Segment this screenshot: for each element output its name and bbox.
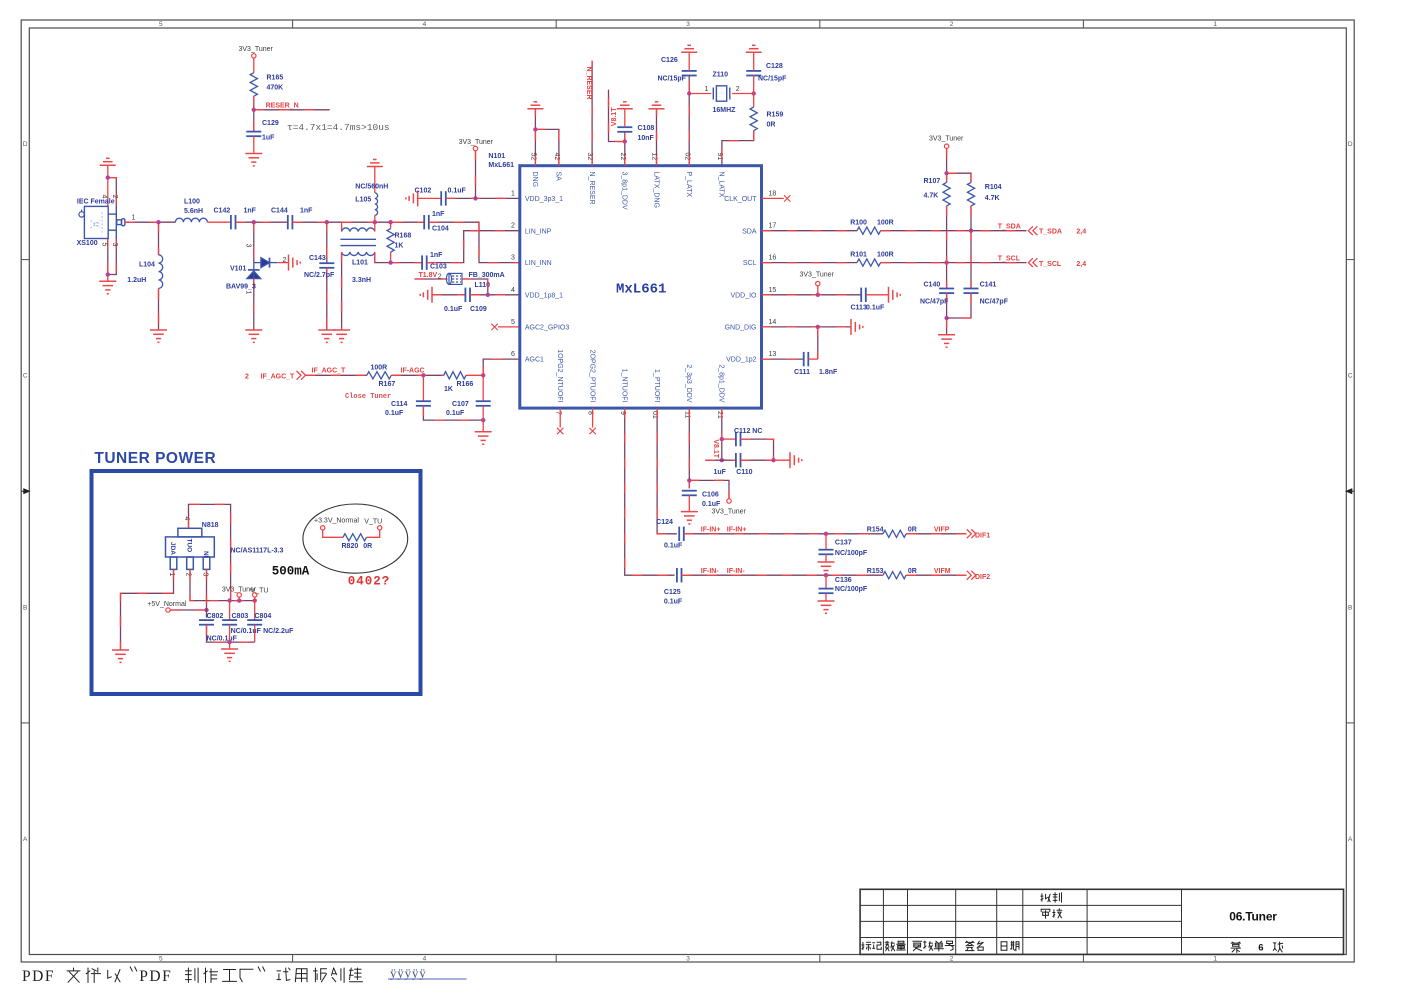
svg-text:3V3_Tuner: 3V3_Tuner bbox=[239, 46, 274, 53]
svg-text:3: 3 bbox=[245, 244, 252, 248]
wire bbox=[946, 293, 948, 335]
svg-text:1K: 1K bbox=[395, 243, 404, 250]
junction bbox=[687, 91, 691, 95]
IC U/N101 MxL661 bbox=[520, 166, 762, 408]
junction bbox=[204, 608, 208, 612]
connector XS100 IEC Female bbox=[79, 206, 125, 238]
svg-text:15: 15 bbox=[769, 287, 777, 294]
inductor L101 bottom bbox=[342, 252, 375, 256]
svg-text:T_SDA: T_SDA bbox=[1039, 229, 1062, 236]
power 3V3_Tuner bbox=[321, 526, 325, 530]
wire bbox=[238, 597, 240, 600]
svg-text:IF-IN-: IF-IN- bbox=[727, 568, 746, 575]
svg-text:3: 3 bbox=[686, 21, 690, 28]
power 3V3_Tuner bbox=[944, 144, 948, 148]
wire bbox=[427, 231, 520, 263]
regulator N818 NC/AS1117L-3.3 bbox=[166, 528, 215, 569]
junction bbox=[533, 127, 537, 131]
ground bbox=[851, 319, 863, 335]
svg-text:NC/2.2uF: NC/2.2uF bbox=[263, 628, 294, 635]
wire bbox=[482, 406, 484, 420]
svg-text:MxL661: MxL661 bbox=[488, 162, 514, 169]
power 3V3_Tuner bbox=[816, 281, 820, 285]
svg-text:2OPG2_PTUOFI: 2OPG2_PTUOFI bbox=[588, 350, 595, 403]
svg-text:N101: N101 bbox=[488, 153, 505, 160]
svg-text:0R: 0R bbox=[908, 527, 917, 534]
wire bbox=[236, 221, 288, 223]
ground bbox=[681, 512, 698, 524]
wire bbox=[762, 197, 784, 199]
svg-text:5.6nH: 5.6nH bbox=[184, 208, 203, 215]
svg-text:PDF: PDF bbox=[139, 968, 172, 985]
wire bbox=[253, 136, 255, 153]
capacitor C106 bbox=[682, 491, 697, 496]
resistor R168 bbox=[387, 229, 394, 253]
wire bbox=[423, 406, 483, 420]
wire bbox=[253, 58, 255, 72]
svg-text:C129: C129 bbox=[262, 120, 279, 127]
wire bbox=[483, 359, 520, 375]
svg-text:N_RESER: N_RESER bbox=[585, 67, 592, 100]
svg-text:2: 2 bbox=[950, 956, 954, 963]
option ellipse bbox=[303, 504, 408, 573]
capacitor C136 bbox=[819, 589, 834, 594]
svg-text:0.1uF: 0.1uF bbox=[385, 410, 404, 417]
svg-text:C143: C143 bbox=[309, 255, 326, 262]
svg-text:ÿÿÿÿÿ: ÿÿÿÿÿ bbox=[390, 966, 427, 981]
svg-text:NC/560nH: NC/560nH bbox=[355, 184, 388, 191]
junction bbox=[720, 437, 724, 441]
svg-text:LIN_INN: LIN_INN bbox=[525, 260, 552, 267]
svg-text:3V3_Tuner: 3V3_Tuner bbox=[929, 136, 964, 143]
wire bbox=[292, 221, 424, 223]
capacitor C802 bbox=[199, 620, 214, 625]
wire bbox=[535, 129, 559, 165]
wire bbox=[107, 238, 109, 275]
svg-text:IEC Female: IEC Female bbox=[77, 198, 115, 205]
svg-text:C126: C126 bbox=[661, 57, 678, 64]
svg-text:R820: R820 bbox=[342, 543, 359, 550]
capacitor C109 bbox=[465, 288, 470, 302]
junction bbox=[106, 272, 110, 276]
wire bbox=[906, 533, 966, 535]
wire bbox=[253, 279, 255, 330]
svg-text:1: 1 bbox=[511, 190, 515, 197]
svg-text:GND_DIG: GND_DIG bbox=[725, 325, 757, 332]
capacitor C140 bbox=[939, 289, 954, 294]
svg-text:NC/47pF: NC/47pF bbox=[980, 299, 1009, 306]
svg-text:C106: C106 bbox=[702, 492, 719, 499]
wire bbox=[125, 221, 176, 223]
junction bbox=[481, 373, 485, 377]
wire bbox=[229, 642, 231, 649]
capacitor C141 bbox=[964, 289, 979, 294]
svg-text:NC/15pF: NC/15pF bbox=[658, 76, 687, 83]
svg-text:A: A bbox=[1348, 836, 1353, 843]
wire bbox=[881, 230, 1027, 232]
junction bbox=[253, 598, 257, 602]
ground bbox=[333, 330, 350, 342]
svg-text:4.7K: 4.7K bbox=[985, 195, 1000, 202]
wire bbox=[947, 293, 971, 318]
svg-text:B: B bbox=[23, 604, 27, 611]
svg-text:14: 14 bbox=[769, 319, 777, 326]
svg-text:C804: C804 bbox=[255, 613, 272, 620]
wire bbox=[592, 408, 594, 427]
ground bbox=[245, 154, 262, 166]
wire bbox=[229, 601, 231, 621]
junction bbox=[421, 373, 425, 377]
svg-text:1OPG2_NTUOFI: 1OPG2_NTUOFI bbox=[556, 349, 563, 402]
wire bbox=[306, 374, 367, 376]
wire bbox=[866, 294, 889, 296]
svg-text:V_TU: V_TU bbox=[364, 519, 382, 526]
wire bbox=[415, 278, 448, 280]
capacitor C124 bbox=[679, 527, 684, 541]
wire bbox=[741, 459, 774, 461]
svg-text:1nF: 1nF bbox=[430, 252, 443, 259]
capacitor C113 bbox=[861, 288, 866, 302]
svg-text:06.Tuner: 06.Tuner bbox=[1229, 910, 1277, 924]
svg-text:V101: V101 bbox=[230, 266, 246, 273]
svg-text:4: 4 bbox=[101, 195, 108, 199]
wire bbox=[825, 575, 827, 588]
svg-text:6: 6 bbox=[511, 351, 515, 358]
ground bbox=[889, 287, 901, 303]
svg-text:1nF: 1nF bbox=[300, 208, 313, 215]
svg-text:2: 2 bbox=[736, 86, 740, 93]
svg-text:C137: C137 bbox=[835, 539, 852, 546]
resistor R159 bbox=[750, 107, 757, 131]
wire bbox=[946, 149, 948, 183]
wire bbox=[374, 215, 376, 222]
capacitor C112 bbox=[736, 432, 741, 446]
svg-text:IF_AGC_T: IF_AGC_T bbox=[261, 373, 296, 380]
svg-text:16MHZ: 16MHZ bbox=[713, 107, 737, 114]
capacitor C144 bbox=[288, 215, 293, 229]
svg-text:0.1uF: 0.1uF bbox=[446, 410, 465, 417]
wire bbox=[390, 222, 392, 228]
wire bbox=[277, 262, 288, 264]
wire bbox=[206, 569, 208, 617]
wire bbox=[881, 262, 1027, 264]
svg-text:Z110: Z110 bbox=[713, 72, 729, 79]
svg-text:0402?: 0402? bbox=[348, 574, 391, 588]
svg-text:LIN_INP: LIN_INP bbox=[525, 228, 552, 235]
svg-text:R107: R107 bbox=[924, 178, 941, 185]
svg-text:PDF: PDF bbox=[22, 968, 55, 985]
svg-text:IF_AGC_T: IF_AGC_T bbox=[312, 367, 347, 374]
svg-text:100R: 100R bbox=[877, 252, 894, 259]
wire bbox=[170, 609, 206, 611]
capacitor C110 bbox=[736, 453, 741, 467]
wire bbox=[254, 597, 256, 600]
svg-text:5: 5 bbox=[159, 21, 163, 28]
wire bbox=[688, 75, 690, 165]
svg-text:2: 2 bbox=[511, 223, 515, 230]
svg-text:3.3nH: 3.3nH bbox=[352, 277, 371, 284]
capacitor C804 bbox=[247, 620, 262, 625]
wire bbox=[121, 569, 174, 650]
svg-text:τ=4.7x1=4.7ms>10us: τ=4.7x1=4.7ms>10us bbox=[287, 122, 390, 133]
wire bbox=[753, 94, 755, 108]
svg-text:JDA: JDA bbox=[169, 542, 176, 555]
wire bbox=[825, 593, 827, 601]
wire bbox=[429, 222, 520, 262]
wire bbox=[688, 408, 690, 488]
svg-text:1nF: 1nF bbox=[432, 211, 445, 218]
svg-text:B: B bbox=[1348, 604, 1352, 611]
wire bbox=[326, 268, 328, 330]
capacitor C103 bbox=[422, 255, 427, 269]
svg-text:3: 3 bbox=[201, 573, 208, 577]
capacitor C114 bbox=[416, 401, 431, 406]
wire bbox=[688, 52, 690, 71]
ground bbox=[100, 158, 116, 165]
junction bbox=[816, 293, 820, 297]
junction bbox=[237, 598, 241, 602]
power 3V3_Tuner bbox=[727, 499, 731, 503]
svg-text:0R: 0R bbox=[363, 543, 372, 550]
svg-text:C141: C141 bbox=[980, 282, 997, 289]
junction bbox=[252, 108, 256, 112]
wire bbox=[254, 109, 330, 111]
svg-text:C803: C803 bbox=[232, 613, 249, 620]
svg-text:C110: C110 bbox=[736, 469, 752, 476]
svg-text:NC/100pF: NC/100pF bbox=[835, 550, 868, 557]
svg-text:3V3_Tuner: 3V3_Tuner bbox=[459, 139, 494, 146]
power 3V3_Tuner bbox=[473, 146, 477, 150]
svg-text:0.1uF: 0.1uF bbox=[444, 306, 463, 313]
capacitor C803 bbox=[222, 620, 237, 625]
resistor R820 bbox=[343, 534, 367, 541]
svg-text:470K: 470K bbox=[267, 85, 284, 92]
svg-text:DNG: DNG bbox=[531, 172, 538, 188]
svg-text:1.8nF: 1.8nF bbox=[819, 369, 838, 376]
svg-text:1: 1 bbox=[705, 86, 709, 93]
ground bbox=[99, 281, 116, 293]
svg-text:T_SDA: T_SDA bbox=[998, 224, 1021, 231]
wire bbox=[732, 93, 754, 95]
svg-text:2: 2 bbox=[283, 257, 287, 264]
wire bbox=[107, 275, 109, 282]
svg-text:AGC2_GPIO3: AGC2_GPIO3 bbox=[525, 325, 569, 332]
wire bbox=[689, 480, 729, 498]
junction bbox=[325, 220, 329, 224]
capacitor C126 bbox=[682, 71, 697, 76]
svg-text:C111: C111 bbox=[794, 369, 810, 376]
ground bbox=[527, 102, 543, 109]
svg-text:C104: C104 bbox=[432, 226, 449, 233]
svg-text:5: 5 bbox=[511, 319, 515, 326]
svg-text:NC/100pF: NC/100pF bbox=[835, 586, 868, 593]
ground bbox=[289, 255, 301, 271]
svg-text:D: D bbox=[1348, 141, 1353, 148]
svg-text:FB_300mA: FB_300mA bbox=[469, 272, 505, 279]
svg-text:VDD_1p2: VDD_1p2 bbox=[726, 357, 756, 364]
svg-text:TUO: TUO bbox=[186, 539, 193, 553]
svg-text:N_RESER: N_RESER bbox=[588, 172, 595, 205]
svg-text:0.1uF: 0.1uF bbox=[866, 305, 885, 312]
svg-text:6: 6 bbox=[1258, 943, 1263, 954]
svg-text:LATX_DNG: LATX_DNG bbox=[652, 172, 659, 208]
resistor R100 bbox=[857, 227, 881, 234]
svg-text:IF-IN+: IF-IN+ bbox=[727, 527, 747, 534]
junction bbox=[373, 220, 377, 224]
svg-text:C109: C109 bbox=[470, 306, 487, 313]
svg-text:P_LATX: P_LATX bbox=[685, 172, 692, 198]
svg-text:+3.3V_Normal: +3.3V_Normal bbox=[314, 518, 359, 525]
wire bbox=[482, 420, 484, 432]
svg-text:0.1uF: 0.1uF bbox=[664, 543, 683, 550]
svg-text:L105: L105 bbox=[355, 197, 371, 204]
title block table bbox=[860, 889, 1343, 954]
resistor R154 bbox=[883, 530, 906, 537]
wire bbox=[722, 438, 736, 440]
resistor R104 bbox=[967, 182, 974, 206]
capacitor C104 bbox=[424, 215, 429, 229]
wire bbox=[374, 167, 376, 193]
wire bbox=[108, 238, 117, 275]
wire bbox=[753, 52, 755, 71]
wire bbox=[158, 288, 160, 330]
junction bbox=[388, 220, 392, 224]
wire bbox=[253, 96, 255, 131]
svg-text:C125: C125 bbox=[664, 589, 681, 596]
svg-text:C108: C108 bbox=[638, 125, 655, 132]
ground bbox=[746, 45, 762, 52]
wire bbox=[189, 504, 231, 600]
svg-text:C802: C802 bbox=[207, 613, 224, 620]
wire bbox=[107, 178, 109, 207]
junction bbox=[771, 458, 775, 462]
ground bbox=[112, 650, 129, 662]
svg-text:MxL661: MxL661 bbox=[616, 282, 666, 298]
svg-text:C112 NC: C112 NC bbox=[734, 428, 762, 435]
svg-text:N_LATX: N_LATX bbox=[718, 172, 725, 198]
junction bbox=[687, 478, 691, 482]
junction bbox=[388, 260, 392, 264]
junction bbox=[944, 316, 948, 320]
svg-text:C136: C136 bbox=[835, 577, 852, 584]
svg-text:1: 1 bbox=[1213, 21, 1217, 28]
svg-text:2: 2 bbox=[245, 373, 249, 380]
svg-text:0.1uF: 0.1uF bbox=[664, 599, 683, 606]
svg-text:VIFM: VIFM bbox=[934, 568, 951, 575]
junction bbox=[156, 220, 160, 224]
wire bbox=[722, 131, 754, 166]
wire bbox=[753, 75, 755, 93]
svg-text:XS100: XS100 bbox=[77, 240, 98, 247]
svg-text:NC/AS1117L-3.3: NC/AS1117L-3.3 bbox=[231, 548, 284, 555]
svg-text:R101: R101 bbox=[850, 252, 867, 259]
wire bbox=[418, 197, 442, 199]
wire bbox=[229, 625, 231, 642]
wire bbox=[466, 374, 483, 376]
svg-text:1uF: 1uF bbox=[262, 135, 275, 142]
svg-text:L104: L104 bbox=[139, 262, 155, 269]
svg-text:2,4: 2,4 bbox=[1076, 261, 1086, 268]
wire bbox=[207, 221, 231, 223]
wire bbox=[446, 197, 520, 199]
wire bbox=[808, 358, 818, 360]
junction bbox=[106, 175, 110, 179]
ground bbox=[406, 190, 418, 206]
svg-text:DIF1: DIF1 bbox=[975, 532, 990, 539]
svg-text:TUNER POWER: TUNER POWER bbox=[94, 450, 216, 467]
wire bbox=[108, 178, 117, 207]
svg-text:1: 1 bbox=[1213, 956, 1217, 963]
wire bbox=[498, 326, 520, 328]
junction bbox=[252, 220, 256, 224]
inductor L100 bbox=[175, 218, 207, 222]
no-connect bbox=[491, 324, 497, 330]
capacitor C129 bbox=[246, 132, 261, 137]
capacitor C143 bbox=[319, 263, 334, 268]
svg-text:4: 4 bbox=[423, 21, 427, 28]
svg-text:VIFP: VIFP bbox=[934, 527, 950, 534]
svg-text:A: A bbox=[23, 836, 28, 843]
svg-text:V8.1T: V8.1T bbox=[611, 107, 618, 126]
svg-text:1K: 1K bbox=[444, 386, 453, 393]
junction bbox=[969, 229, 973, 233]
svg-text:SA: SA bbox=[555, 172, 562, 182]
wire bbox=[762, 358, 804, 360]
ground bbox=[245, 330, 262, 342]
svg-text:100R: 100R bbox=[371, 365, 388, 372]
wire bbox=[391, 374, 443, 376]
wire bbox=[482, 375, 484, 401]
wire bbox=[559, 408, 561, 427]
svg-text:+5V_Normal: +5V_Normal bbox=[147, 601, 187, 608]
resistor R101 bbox=[857, 259, 881, 266]
svg-text:2: 2 bbox=[111, 195, 118, 199]
svg-text:T1.8V: T1.8V bbox=[419, 272, 438, 279]
svg-text:C144: C144 bbox=[271, 208, 288, 215]
sheet number bbox=[1231, 942, 1240, 953]
wire bbox=[107, 165, 109, 177]
power 3V3_Tuner bbox=[237, 593, 241, 597]
wire bbox=[158, 222, 160, 255]
junction bbox=[227, 640, 231, 644]
svg-text:3: 3 bbox=[686, 956, 690, 963]
svg-text:100R: 100R bbox=[877, 220, 894, 227]
wire bbox=[375, 252, 422, 263]
wire bbox=[906, 574, 966, 576]
junction bbox=[824, 573, 828, 577]
svg-text:L100: L100 bbox=[184, 198, 200, 205]
ground bbox=[367, 160, 383, 167]
wire bbox=[762, 326, 852, 328]
wire bbox=[326, 222, 328, 263]
wire bbox=[609, 90, 625, 142]
svg-text:R154: R154 bbox=[867, 527, 884, 534]
svg-text:R104: R104 bbox=[985, 184, 1002, 191]
wire bbox=[684, 533, 883, 535]
wire bbox=[625, 408, 675, 575]
power block border bbox=[92, 471, 421, 694]
no-connect bbox=[589, 428, 595, 434]
wire bbox=[774, 459, 791, 461]
wire bbox=[970, 206, 972, 289]
svg-text:C114: C114 bbox=[391, 401, 407, 408]
wire bbox=[462, 279, 488, 295]
no-connect bbox=[784, 195, 790, 201]
wire bbox=[254, 601, 256, 621]
wire bbox=[534, 109, 536, 166]
wire bbox=[190, 569, 255, 600]
junction bbox=[473, 196, 477, 200]
